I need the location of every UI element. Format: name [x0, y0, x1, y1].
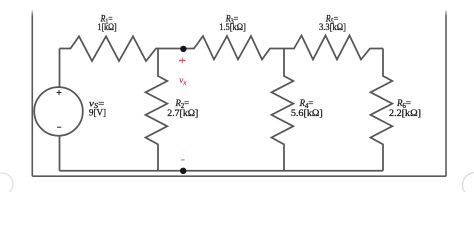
svg-text:2.7[kΩ]: 2.7[kΩ] [167, 109, 198, 119]
svg-text:3.3[kΩ]: 3.3[kΩ] [319, 23, 346, 33]
svg-text:1[kΩ]: 1[kΩ] [98, 23, 117, 33]
svg-text:9[V]: 9[V] [89, 109, 106, 119]
svg-text:2.2[kΩ]: 2.2[kΩ] [389, 109, 421, 119]
svg-text:1.5[kΩ]: 1.5[kΩ] [219, 23, 246, 33]
svg-text:5.6[kΩ]: 5.6[kΩ] [291, 109, 323, 119]
